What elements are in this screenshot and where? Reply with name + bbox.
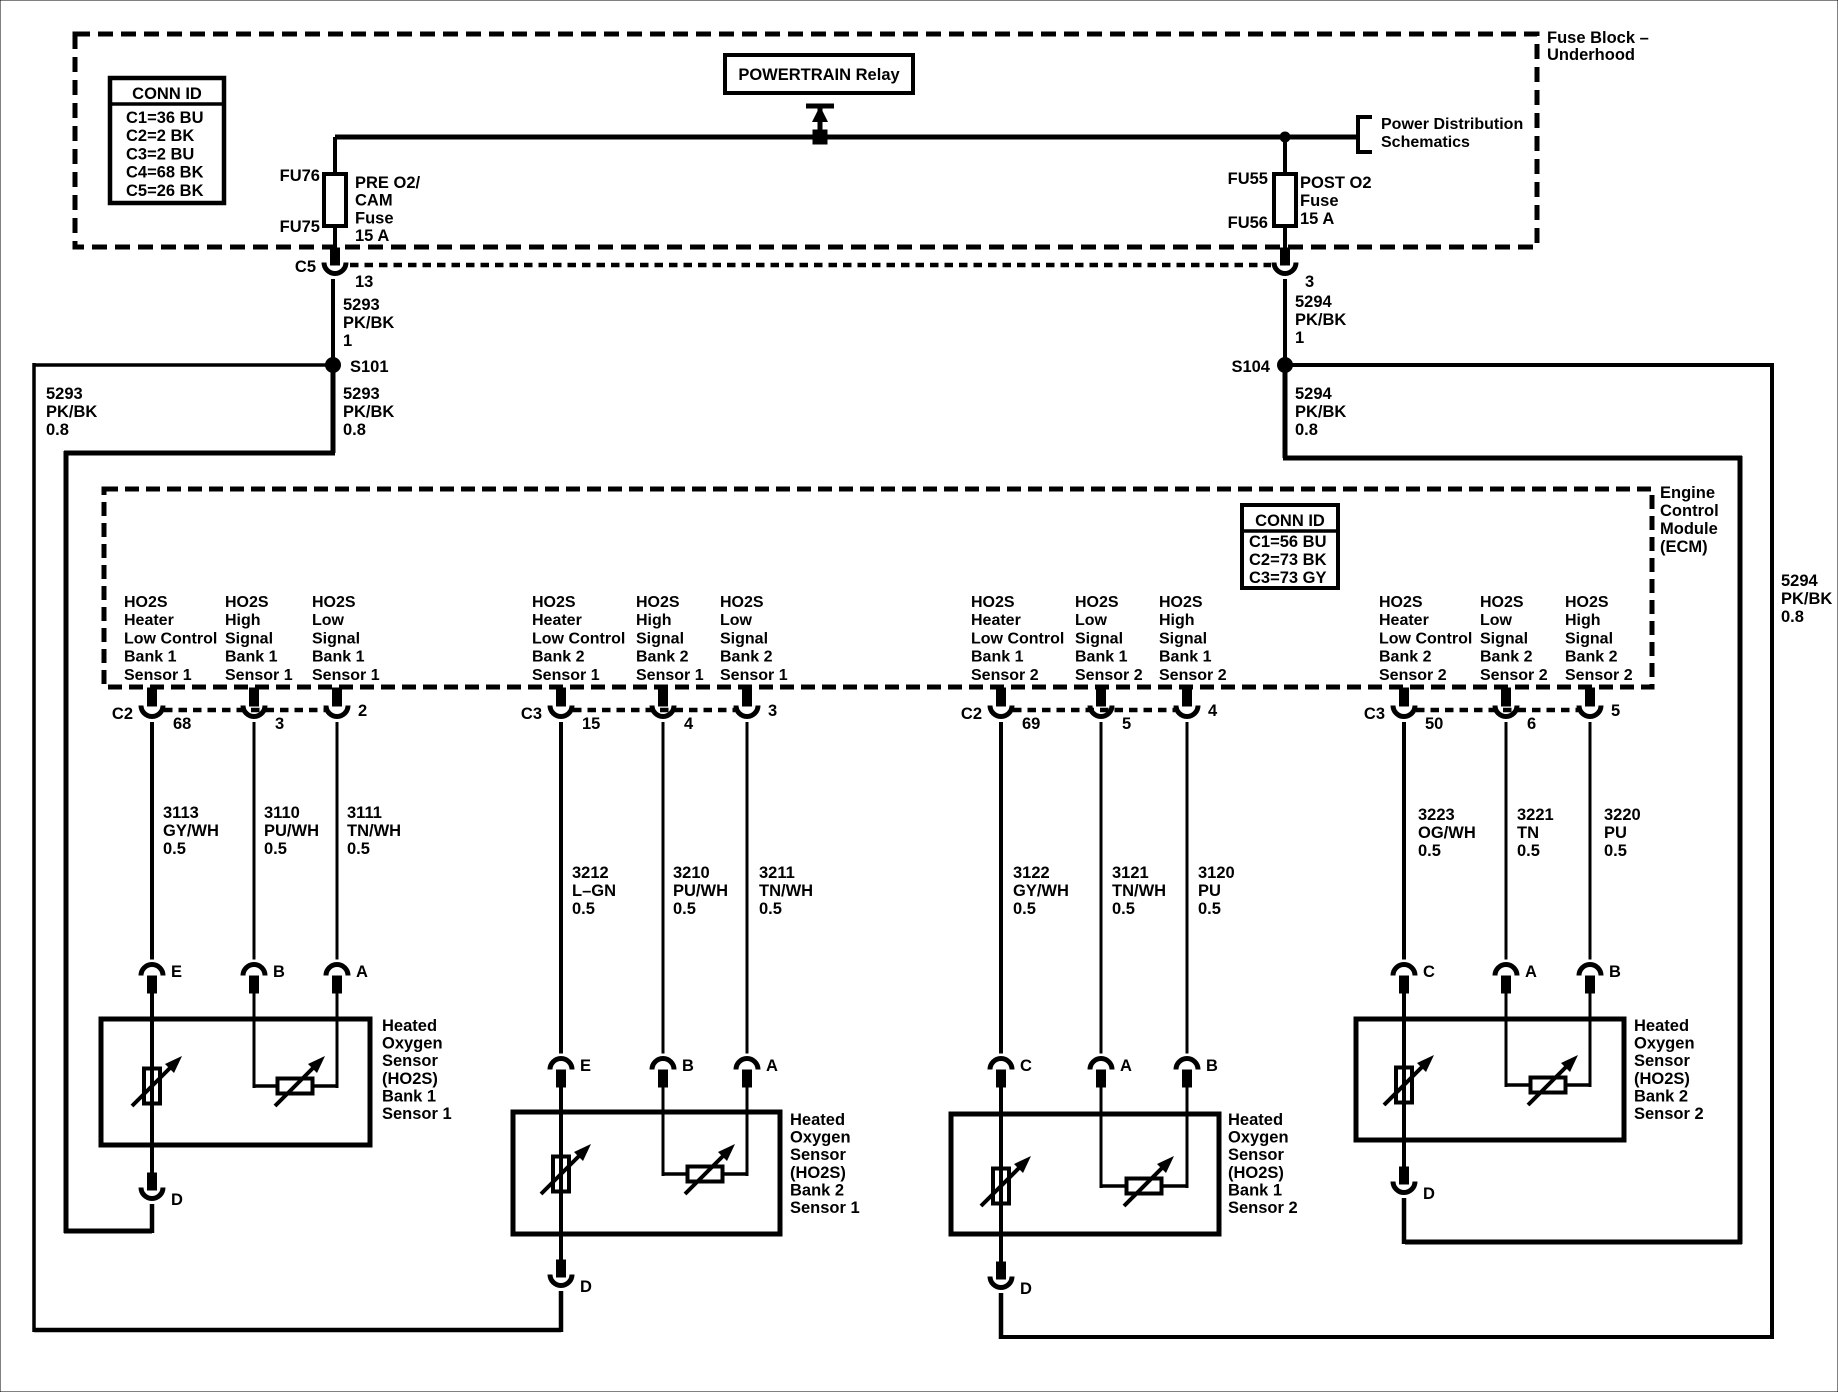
svg-text:2: 2 — [358, 702, 367, 720]
connector C5 pin 13 — [295, 248, 373, 291]
svg-text:A: A — [766, 1057, 778, 1075]
svg-text:Signal: Signal — [312, 630, 360, 647]
svg-text:L–GN: L–GN — [572, 882, 616, 900]
svg-text:15 A: 15 A — [355, 227, 389, 245]
svg-text:0.5: 0.5 — [347, 840, 370, 858]
svg-text:0.5: 0.5 — [572, 900, 595, 918]
wire 5294 PK/BK 0.8 right branch to bottom rail — [1003, 363, 1832, 1339]
svg-text:Sensor: Sensor — [382, 1052, 439, 1070]
svg-text:HO2S: HO2S — [1480, 594, 1524, 611]
svg-text:PU: PU — [1198, 882, 1221, 900]
svg-text:C3: C3 — [521, 705, 542, 723]
svg-text:D: D — [1423, 1185, 1435, 1203]
svg-text:Fuse: Fuse — [355, 209, 394, 227]
svg-text:5293: 5293 — [343, 385, 380, 403]
svg-text:HO2S: HO2S — [971, 594, 1015, 611]
splice S101 — [325, 357, 389, 376]
svg-text:3210: 3210 — [673, 864, 710, 882]
wire: ground lead below terminal D Bank 1 Sensor 1 — [150, 1204, 155, 1233]
svg-text:C5=26 BK: C5=26 BK — [126, 182, 204, 200]
svg-text:PK/BK: PK/BK — [1295, 403, 1346, 421]
svg-text:Control: Control — [1660, 502, 1719, 520]
svg-text:HO2S: HO2S — [1075, 594, 1119, 611]
svg-text:1: 1 — [343, 332, 352, 350]
fuse FU76/FU75 PRE O2/CAM 15A — [280, 167, 421, 245]
wire 3122 GY/WH 0.5 from ECM pin 69 — [1001, 722, 1069, 1054]
svg-text:3212: 3212 — [572, 864, 609, 882]
svg-text:C1=56 BU: C1=56 BU — [1249, 533, 1327, 551]
svg-text:C1=36 BU: C1=36 BU — [126, 109, 204, 127]
svg-text:Bank 1: Bank 1 — [1075, 649, 1128, 666]
svg-text:C3=2 BU: C3=2 BU — [126, 145, 194, 163]
wire: signal loop Bank 1 Sensor 2 — [1101, 1087, 1187, 1188]
svg-text:Module: Module — [1660, 520, 1718, 538]
svg-text:(HO2S): (HO2S) — [1634, 1070, 1690, 1088]
connector terminal A of circuit 3121 — [1090, 1057, 1132, 1087]
svg-text:Sensor 1: Sensor 1 — [790, 1199, 860, 1217]
svg-text:3122: 3122 — [1013, 864, 1050, 882]
wire: signal loop Bank 2 Sensor 1 — [663, 1087, 747, 1176]
svg-text:4: 4 — [1208, 702, 1218, 720]
svg-text:CAM: CAM — [355, 192, 393, 210]
svg-text:PK/BK: PK/BK — [343, 314, 394, 332]
connector terminal A of circuit 3221 — [1495, 963, 1537, 993]
svg-text:POST O2: POST O2 — [1300, 174, 1372, 192]
svg-text:D: D — [1020, 1280, 1032, 1298]
svg-text:Heated: Heated — [1228, 1111, 1283, 1129]
svg-text:Signal: Signal — [1159, 630, 1207, 647]
svg-text:Bank 1: Bank 1 — [1228, 1181, 1282, 1199]
svg-text:Sensor: Sensor — [1634, 1052, 1691, 1070]
svg-text:5294: 5294 — [1781, 572, 1819, 590]
svg-text:HO2S: HO2S — [312, 594, 356, 611]
svg-text:FU55: FU55 — [1228, 170, 1268, 188]
wire: heater circuit through Bank 2 Sensor 2 — [1402, 993, 1406, 1169]
svg-text:0.5: 0.5 — [1418, 842, 1441, 860]
connector terminal B of circuit 3210 — [652, 1057, 694, 1087]
svg-text:Signal: Signal — [225, 630, 273, 647]
svg-text:Bank 1: Bank 1 — [124, 649, 177, 666]
connector terminal C of circuit 3223 — [1393, 963, 1435, 993]
ECM pin label column 7: Heater Low Control Bank 1 Sensor 2 — [971, 594, 1064, 684]
svg-text:Signal: Signal — [1565, 630, 1613, 647]
svg-text:Low Control: Low Control — [1379, 630, 1472, 647]
ECM connector C3 row (pins 15, 4, 3) — [521, 688, 777, 733]
ECM pin label column 12: High Signal Bank 2 Sensor 2 — [1565, 594, 1633, 684]
svg-text:PU/WH: PU/WH — [264, 822, 319, 840]
svg-text:0.5: 0.5 — [264, 840, 287, 858]
heater element (variable resistor) Bank 2 Sensor 1 — [541, 1144, 591, 1194]
svg-text:3: 3 — [275, 715, 284, 733]
svg-text:E: E — [580, 1057, 591, 1075]
fuse block label — [1547, 29, 1649, 64]
svg-text:Bank 2: Bank 2 — [720, 649, 773, 666]
svg-text:TN/WH: TN/WH — [759, 882, 813, 900]
svg-text:6: 6 — [1527, 715, 1536, 733]
svg-text:Bank 1: Bank 1 — [1159, 649, 1212, 666]
svg-text:3120: 3120 — [1198, 864, 1235, 882]
svg-text:HO2S: HO2S — [720, 594, 764, 611]
connector terminal E of circuit 3212 — [550, 1057, 591, 1087]
svg-text:Sensor 2: Sensor 2 — [1228, 1199, 1298, 1217]
svg-text:Sensor 1: Sensor 1 — [312, 667, 380, 684]
wire: heater circuit through Bank 2 Sensor 1 — [559, 1087, 563, 1262]
svg-text:Sensor 1: Sensor 1 — [124, 667, 192, 684]
connector terminal D of Bank 2 Sensor 2 — [1393, 1167, 1435, 1203]
svg-text:0.8: 0.8 — [1295, 421, 1318, 439]
wire 3120 PU 0.5 from ECM pin 4 — [1187, 722, 1235, 1054]
ECM connector C2 row (pins 68, 3, 2) — [112, 688, 367, 733]
fuse FU55/FU56 POST O2 15A — [1228, 170, 1372, 232]
svg-text:PRE O2/: PRE O2/ — [355, 174, 421, 192]
svg-text:0.5: 0.5 — [673, 900, 696, 918]
svg-text:0.5: 0.5 — [1013, 900, 1036, 918]
svg-text:1: 1 — [1295, 329, 1304, 347]
heater element (variable resistor) Bank 1 Sensor 1 — [132, 1056, 182, 1106]
svg-text:3223: 3223 — [1418, 806, 1455, 824]
svg-text:HO2S: HO2S — [1565, 594, 1609, 611]
svg-text:PK/BK: PK/BK — [343, 403, 394, 421]
svg-text:0.5: 0.5 — [163, 840, 186, 858]
wire 5293 PK/BK 0.8 left branch to bottom rail — [34, 363, 561, 1332]
wire 5293 PK/BK 0.8 S101 down-branch to HO2S B1S1 ground — [64, 365, 394, 1233]
heated oxygen sensor box Bank 1 Sensor 2 — [951, 1111, 1298, 1234]
svg-text:0.5: 0.5 — [1604, 842, 1627, 860]
svg-text:A: A — [1525, 963, 1537, 981]
wire: heater circuit through Bank 1 Sensor 1 — [150, 993, 154, 1175]
connector terminal D of Bank 1 Sensor 2 — [990, 1262, 1032, 1298]
svg-text:C2: C2 — [961, 705, 982, 723]
svg-text:Fuse Block –: Fuse Block – — [1547, 29, 1649, 47]
svg-text:3121: 3121 — [1112, 864, 1149, 882]
wire 3111 TN/WH 0.5 from ECM pin 2 — [337, 722, 401, 960]
svg-text:B: B — [273, 963, 285, 981]
svg-text:5293: 5293 — [343, 296, 380, 314]
svg-text:Sensor 1: Sensor 1 — [225, 667, 293, 684]
ECM connector C2 row (pins 69, 5, 4) — [961, 688, 1218, 733]
dashed harness connector line C5 to POST connector — [350, 263, 1271, 268]
connector pin 3 — [1274, 248, 1314, 291]
svg-text:0.8: 0.8 — [1781, 608, 1804, 626]
svg-text:15: 15 — [582, 715, 600, 733]
svg-text:A: A — [356, 963, 368, 981]
svg-text:4: 4 — [684, 715, 694, 733]
svg-text:Low: Low — [312, 612, 345, 629]
wire 3121 TN/WH 0.5 from ECM pin 5 — [1101, 722, 1166, 1054]
svg-text:Heater: Heater — [124, 612, 174, 629]
wire: POST fuse to connector pin 3 — [1283, 226, 1287, 249]
svg-text:C: C — [1020, 1057, 1032, 1075]
wire 5293 PK/BK 1 from C5 to S101 — [333, 279, 394, 365]
svg-text:Signal: Signal — [1480, 630, 1528, 647]
svg-text:0.8: 0.8 — [46, 421, 69, 439]
svg-text:5294: 5294 — [1295, 385, 1333, 403]
svg-text:Fuse: Fuse — [1300, 192, 1339, 210]
svg-text:Sensor 2: Sensor 2 — [1565, 667, 1633, 684]
svg-text:Engine: Engine — [1660, 484, 1715, 502]
svg-text:13: 13 — [355, 273, 373, 291]
svg-text:Heated: Heated — [382, 1017, 437, 1035]
svg-text:PU: PU — [1604, 824, 1627, 842]
wire: power bus inside fuse block — [335, 135, 1358, 140]
splice S104 — [1231, 357, 1293, 376]
svg-text:D: D — [171, 1191, 183, 1209]
svg-text:Signal: Signal — [720, 630, 768, 647]
engine control module dashed box — [104, 489, 1652, 687]
ECM label — [1660, 484, 1719, 556]
svg-text:Low: Low — [720, 612, 753, 629]
svg-text:Sensor 1: Sensor 1 — [382, 1105, 452, 1123]
heater element (variable resistor) Bank 1 Sensor 2 — [981, 1156, 1031, 1206]
svg-text:Sensor 2: Sensor 2 — [1075, 667, 1143, 684]
svg-text:E: E — [171, 963, 182, 981]
heated oxygen sensor box Bank 2 Sensor 2 — [1356, 1017, 1704, 1140]
svg-text:Bank 2: Bank 2 — [1565, 649, 1618, 666]
svg-text:Bank 1: Bank 1 — [225, 649, 278, 666]
svg-text:FU56: FU56 — [1228, 214, 1268, 232]
svg-text:15 A: 15 A — [1300, 210, 1334, 228]
svg-text:3: 3 — [1305, 273, 1314, 291]
svg-text:0.5: 0.5 — [1112, 900, 1135, 918]
svg-text:FU76: FU76 — [280, 167, 320, 185]
wire: bus drop to POST O2 fuse — [1283, 137, 1287, 176]
svg-text:Sensor 2: Sensor 2 — [1159, 667, 1227, 684]
svg-text:POWERTRAIN Relay: POWERTRAIN Relay — [738, 66, 900, 84]
wire 3212 L–GN 0.5 from ECM pin 15 — [561, 722, 616, 1054]
wire from POWERTRAIN relay to bus with arrow terminal — [806, 106, 834, 144]
wire 3221 TN 0.5 from ECM pin 6 — [1506, 722, 1554, 960]
wire 3211 TN/WH 0.5 from ECM pin 3 — [747, 722, 813, 1054]
svg-text:3113: 3113 — [163, 804, 199, 822]
svg-text:50: 50 — [1425, 715, 1443, 733]
connector terminal B of circuit 3120 — [1176, 1057, 1218, 1087]
svg-text:Bank 2: Bank 2 — [1634, 1087, 1688, 1105]
heater element (variable resistor) Bank 2 Sensor 2 — [1384, 1055, 1434, 1105]
svg-text:Sensor 2: Sensor 2 — [1379, 667, 1447, 684]
svg-text:Bank 2: Bank 2 — [1480, 649, 1533, 666]
svg-text:68: 68 — [173, 715, 191, 733]
wire: signal loop Bank 2 Sensor 2 — [1506, 993, 1590, 1087]
svg-text:Low: Low — [1480, 612, 1513, 629]
svg-text:C3=73 GY: C3=73 GY — [1249, 569, 1327, 587]
wire: heater circuit through Bank 1 Sensor 2 — [999, 1087, 1003, 1264]
svg-text:0.8: 0.8 — [343, 421, 366, 439]
connector terminal B of circuit 3110 — [243, 963, 285, 993]
node: junction dot at POST O2 fuse tap — [1280, 132, 1291, 143]
svg-text:0.5: 0.5 — [759, 900, 782, 918]
connector terminal E of circuit 3113 — [141, 963, 182, 993]
wire 5294 PK/BK 0.8 S104 down-branch to HO2S B2S2 ground — [1283, 365, 1742, 1244]
svg-text:(HO2S): (HO2S) — [1228, 1164, 1284, 1182]
svg-text:(HO2S): (HO2S) — [382, 1070, 438, 1088]
svg-text:C3: C3 — [1364, 705, 1385, 723]
svg-text:PK/BK: PK/BK — [46, 403, 97, 421]
connector terminal A of circuit 3111 — [326, 963, 368, 993]
svg-text:C2=2 BK: C2=2 BK — [126, 127, 194, 145]
ECM pin label column 6: Low Signal Bank 2 Sensor 1 — [720, 594, 788, 684]
svg-text:Bank 2: Bank 2 — [636, 649, 689, 666]
svg-text:0.5: 0.5 — [1517, 842, 1540, 860]
svg-text:Low Control: Low Control — [124, 630, 217, 647]
svg-text:Underhood: Underhood — [1547, 46, 1635, 64]
wire 3220 PU 0.5 from ECM pin 5 — [1590, 722, 1641, 960]
svg-text:C5: C5 — [295, 258, 316, 276]
svg-text:HO2S: HO2S — [225, 594, 269, 611]
heated oxygen sensor box Bank 1 Sensor 1 — [101, 1017, 452, 1145]
svg-text:(HO2S): (HO2S) — [790, 1164, 846, 1182]
connector terminal C of circuit 3122 — [990, 1057, 1032, 1087]
ECM pin label column 11: Low Signal Bank 2 Sensor 2 — [1480, 594, 1548, 684]
svg-text:Oxygen: Oxygen — [1228, 1129, 1289, 1147]
svg-text:HO2S: HO2S — [1379, 594, 1423, 611]
svg-text:Sensor 2: Sensor 2 — [1634, 1105, 1704, 1123]
svg-text:Power Distribution: Power Distribution — [1381, 116, 1523, 133]
wire: ground lead below terminal D Bank 2 Sensor 1 — [559, 1291, 564, 1332]
connector terminal D of Bank 2 Sensor 1 — [550, 1260, 592, 1296]
svg-text:Bank 2: Bank 2 — [532, 649, 585, 666]
svg-text:Heater: Heater — [532, 612, 582, 629]
svg-text:Sensor 1: Sensor 1 — [720, 667, 788, 684]
svg-text:0.5: 0.5 — [1198, 900, 1221, 918]
svg-text:Sensor 2: Sensor 2 — [971, 667, 1039, 684]
wire 3110 PU/WH 0.5 from ECM pin 3 — [254, 722, 319, 960]
svg-text:TN/WH: TN/WH — [1112, 882, 1166, 900]
ECM pin label column 10: Heater Low Control Bank 2 Sensor 2 — [1379, 594, 1472, 684]
svg-text:High: High — [636, 612, 672, 629]
svg-text:Low: Low — [1075, 612, 1108, 629]
svg-text:Bank 1: Bank 1 — [312, 649, 365, 666]
svg-text:Low Control: Low Control — [532, 630, 625, 647]
svg-text:Sensor 1: Sensor 1 — [532, 667, 600, 684]
svg-text:Sensor: Sensor — [790, 1146, 847, 1164]
wire 3223 OG/WH 0.5 from ECM pin 50 — [1404, 722, 1476, 960]
wire: PRE fuse to connector C5 — [333, 226, 337, 249]
svg-text:C2=73 BK: C2=73 BK — [1249, 551, 1327, 569]
svg-text:Heater: Heater — [971, 612, 1021, 629]
svg-text:S104: S104 — [1231, 358, 1270, 376]
svg-text:B: B — [682, 1057, 694, 1075]
svg-text:CONN ID: CONN ID — [132, 85, 202, 103]
ECM pin label column 9: High Signal Bank 1 Sensor 2 — [1159, 594, 1227, 684]
svg-text:Oxygen: Oxygen — [382, 1035, 443, 1053]
wire 3113 GY/WH 0.5 from ECM pin 68 — [152, 722, 219, 960]
svg-text:HO2S: HO2S — [636, 594, 680, 611]
svg-text:Sensor 2: Sensor 2 — [1480, 667, 1548, 684]
svg-text:B: B — [1609, 963, 1621, 981]
heated oxygen sensor box Bank 2 Sensor 1 — [513, 1111, 860, 1234]
relay K: POWERTRAIN Relay box — [725, 55, 913, 93]
ECM pin label column 4: Heater Low Control Bank 2 Sensor 1 — [532, 594, 625, 684]
sensing element (variable resistor) Bank 2 Sensor 2 — [1528, 1055, 1578, 1105]
svg-text:Schematics: Schematics — [1381, 134, 1470, 151]
CONN ID table ECM — [1242, 505, 1338, 588]
fuse block underhood dashed box — [75, 34, 1537, 247]
svg-text:C4=68 BK: C4=68 BK — [126, 164, 204, 182]
svg-text:3: 3 — [768, 702, 777, 720]
svg-text:Sensor 1: Sensor 1 — [636, 667, 704, 684]
wire: bus drop to PRE O2 fuse — [333, 137, 337, 176]
svg-text:TN: TN — [1517, 824, 1539, 842]
svg-text:Signal: Signal — [636, 630, 684, 647]
svg-text:Heated: Heated — [1634, 1017, 1689, 1035]
svg-text:3221: 3221 — [1517, 806, 1554, 824]
ECM pin label column 5: High Signal Bank 2 Sensor 1 — [636, 594, 704, 684]
svg-text:C: C — [1423, 963, 1435, 981]
svg-text:Oxygen: Oxygen — [1634, 1035, 1695, 1053]
svg-text:A: A — [1120, 1057, 1132, 1075]
ECM pin label column 2: High Signal Bank 1 Sensor 1 — [225, 594, 293, 684]
svg-text:Signal: Signal — [1075, 630, 1123, 647]
sensing element (variable resistor) Bank 1 Sensor 1 — [275, 1056, 325, 1106]
svg-text:(ECM): (ECM) — [1660, 538, 1708, 556]
svg-text:Heater: Heater — [1379, 612, 1429, 629]
wire: ground lead below terminal D Bank 2 Sensor 2 — [1402, 1198, 1407, 1244]
svg-text:69: 69 — [1022, 715, 1040, 733]
Power Distribution Schematics reference bracket — [1358, 116, 1523, 152]
svg-text:OG/WH: OG/WH — [1418, 824, 1476, 842]
svg-text:S101: S101 — [350, 358, 389, 376]
svg-text:PU/WH: PU/WH — [673, 882, 728, 900]
svg-text:Oxygen: Oxygen — [790, 1129, 851, 1147]
svg-text:PK/BK: PK/BK — [1781, 590, 1832, 608]
svg-text:Heated: Heated — [790, 1111, 845, 1129]
svg-text:FU75: FU75 — [280, 218, 320, 236]
svg-text:3211: 3211 — [759, 864, 795, 882]
connector terminal B of circuit 3220 — [1579, 963, 1621, 993]
CONN ID table fuse block — [110, 78, 224, 203]
svg-text:TN/WH: TN/WH — [347, 822, 401, 840]
connector terminal D of Bank 1 Sensor 1 — [141, 1173, 183, 1209]
svg-text:5: 5 — [1611, 702, 1620, 720]
svg-text:Bank 1: Bank 1 — [382, 1087, 436, 1105]
ECM connector C3 row (pins 50, 6, 5) — [1364, 688, 1620, 733]
connector terminal A of circuit 3211 — [736, 1057, 778, 1087]
svg-text:CONN ID: CONN ID — [1255, 512, 1325, 530]
svg-text:Sensor: Sensor — [1228, 1146, 1285, 1164]
wire 3210 PU/WH 0.5 from ECM pin 4 — [663, 722, 728, 1054]
svg-text:Bank 2: Bank 2 — [790, 1181, 844, 1199]
svg-text:HO2S: HO2S — [1159, 594, 1203, 611]
svg-text:Bank 1: Bank 1 — [971, 649, 1024, 666]
sensing element (variable resistor) Bank 2 Sensor 1 — [685, 1144, 735, 1194]
ECM pin label column 1: Heater Low Control Bank 1 Sensor 1 — [124, 594, 217, 684]
svg-text:GY/WH: GY/WH — [163, 822, 219, 840]
svg-text:5294: 5294 — [1295, 293, 1333, 311]
wire: ground lead below terminal D Bank 1 Sensor 2 — [999, 1293, 1004, 1339]
ECM pin label column 3: Low Signal Bank 1 Sensor 1 — [312, 594, 380, 684]
svg-text:5293: 5293 — [46, 385, 83, 403]
svg-text:3111: 3111 — [347, 804, 382, 822]
sensing element (variable resistor) Bank 1 Sensor 2 — [1124, 1156, 1174, 1206]
svg-text:3110: 3110 — [264, 804, 300, 822]
wire 5294 PK/BK 1 from pin 3 to S104 — [1285, 279, 1346, 365]
ECM pin label column 8: Low Signal Bank 1 Sensor 2 — [1075, 594, 1143, 684]
svg-text:5: 5 — [1122, 715, 1131, 733]
svg-text:Low Control: Low Control — [971, 630, 1064, 647]
svg-text:GY/WH: GY/WH — [1013, 882, 1069, 900]
svg-text:D: D — [580, 1278, 592, 1296]
wire: signal loop Bank 1 Sensor 1 — [254, 993, 337, 1088]
svg-text:HO2S: HO2S — [124, 594, 168, 611]
svg-text:High: High — [225, 612, 261, 629]
svg-text:High: High — [1565, 612, 1601, 629]
svg-text:High: High — [1159, 612, 1195, 629]
svg-text:PK/BK: PK/BK — [1295, 311, 1346, 329]
svg-text:Bank 2: Bank 2 — [1379, 649, 1432, 666]
svg-text:HO2S: HO2S — [532, 594, 576, 611]
svg-text:3220: 3220 — [1604, 806, 1641, 824]
svg-text:B: B — [1206, 1057, 1218, 1075]
